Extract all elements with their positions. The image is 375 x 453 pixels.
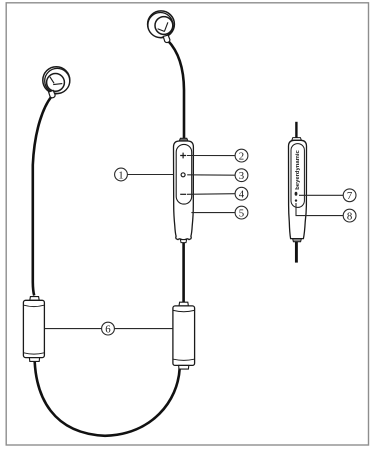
svg-text:7: 7 xyxy=(347,190,353,202)
right earbud rim xyxy=(148,13,173,38)
callout 5 xyxy=(191,206,248,219)
callout 3 xyxy=(187,169,248,182)
svg-text:beyerdynamic: beyerdynamic xyxy=(295,149,301,189)
body xyxy=(23,300,44,357)
callout 2 xyxy=(187,149,248,162)
right earbud outer shell xyxy=(148,11,175,38)
callout 4 xyxy=(187,187,248,200)
body xyxy=(174,141,194,240)
LED window xyxy=(295,192,298,196)
top ferrule xyxy=(30,297,39,301)
left cylinder (battery housing) xyxy=(23,297,44,362)
callout 1 xyxy=(115,168,174,181)
left earbud face xyxy=(47,74,65,92)
bottom cable xyxy=(295,242,298,263)
body xyxy=(173,306,195,366)
body xyxy=(289,140,307,238)
bottom seam xyxy=(24,353,44,354)
circle button xyxy=(181,173,185,177)
left earbud rim xyxy=(45,68,70,93)
left earbud xyxy=(43,67,70,98)
U wire between cylinders xyxy=(35,362,180,436)
left earbud strain-relief nub xyxy=(49,90,56,97)
svg-text:8: 8 xyxy=(347,210,352,222)
bottom ferrule xyxy=(29,358,39,362)
top cable xyxy=(295,122,297,138)
top ferrule xyxy=(179,138,188,141)
wire right cylinder up to center remote xyxy=(182,242,185,302)
right earbud logo mark xyxy=(164,22,168,31)
inner face panel xyxy=(291,144,304,208)
callout 6 xyxy=(45,322,173,335)
svg-text:2: 2 xyxy=(239,150,244,162)
callout 8 xyxy=(296,203,356,222)
wire center remote up to right earbud xyxy=(168,41,184,139)
inner button panel xyxy=(176,144,192,204)
bottom ferrule xyxy=(179,365,189,369)
callout 7 xyxy=(299,189,356,202)
right cylinder (battery housing) xyxy=(173,302,195,369)
minus button xyxy=(180,193,186,195)
right earbud xyxy=(148,11,175,43)
plus button xyxy=(180,153,186,159)
svg-text:4: 4 xyxy=(239,188,245,200)
svg-text:1: 1 xyxy=(118,169,123,181)
top seam xyxy=(173,310,194,311)
top seam xyxy=(24,305,44,306)
top ferrule xyxy=(292,138,302,141)
bottom seam xyxy=(173,359,194,360)
right remote (one-button with mic) xyxy=(289,122,307,263)
bottom ferrule xyxy=(180,240,186,243)
center remote (3-button) xyxy=(174,138,194,242)
svg-text:5: 5 xyxy=(239,207,244,219)
right earbud face xyxy=(155,17,173,35)
bottom ferrule xyxy=(293,239,302,242)
wire from left earbud down to left cylinder xyxy=(33,97,52,296)
left earbud outer shell xyxy=(43,67,70,94)
right earbud strain-relief nub xyxy=(163,35,170,42)
microphone hole xyxy=(295,199,297,201)
top ferrule xyxy=(179,302,188,306)
left earbud logo mark xyxy=(50,77,54,84)
svg-text:3: 3 xyxy=(239,170,244,182)
svg-text:6: 6 xyxy=(105,323,111,335)
